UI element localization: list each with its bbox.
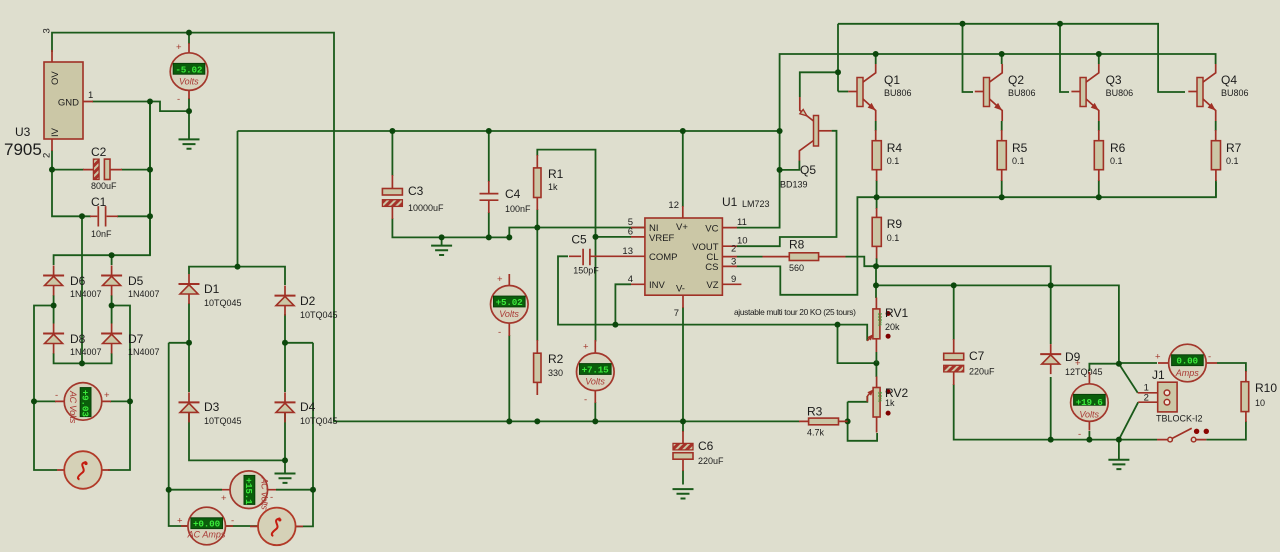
svg-text:2: 2	[42, 153, 53, 158]
ammeter AC Amps +0.00	[177, 507, 234, 545]
wire: C3/C4 bottom rail to NI corner	[392, 212, 645, 246]
svg-text:+: +	[221, 493, 227, 504]
voltmeter +7.15 Volts	[577, 340, 615, 406]
wire: bridge2 top rail	[189, 267, 285, 285]
wire: R1 top route over to VREF vertical	[537, 150, 595, 342]
svg-text:Volts: Volts	[585, 377, 605, 387]
capacitor C5 150pF	[569, 233, 610, 276]
svg-text:C4: C4	[505, 187, 521, 201]
svg-text:AC Amps: AC Amps	[187, 530, 226, 540]
svg-text:10: 10	[737, 236, 748, 247]
svg-text:100nF: 100nF	[505, 204, 531, 214]
junction	[109, 252, 115, 258]
wire: Q5 emitter node line	[800, 72, 838, 97]
svg-text:9: 9	[731, 274, 736, 285]
svg-text:D4: D4	[300, 400, 316, 414]
svg-text:-: -	[498, 327, 501, 338]
svg-text:D7: D7	[128, 332, 144, 346]
svg-text:1N4007: 1N4007	[128, 347, 160, 357]
voltmeter AC Volts +9.03 (rotated)	[55, 383, 111, 424]
svg-text:BU806: BU806	[1008, 88, 1036, 98]
svg-text:COMP: COMP	[649, 252, 678, 263]
wire: U3 pin2 down to C2 row	[52, 150, 150, 170]
svg-text:10nF: 10nF	[91, 229, 112, 239]
junction	[612, 322, 618, 328]
svg-text:+7.15: +7.15	[582, 365, 610, 376]
svg-text:6: 6	[628, 227, 633, 238]
junction	[874, 194, 880, 200]
wire: Q5 collector route to VC node	[780, 161, 800, 170]
AC source 2	[250, 508, 303, 546]
svg-text:10TQ045: 10TQ045	[300, 416, 338, 426]
junction	[79, 213, 85, 219]
capacitor C3 10000uF	[382, 175, 444, 219]
svg-text:Q3: Q3	[1106, 73, 1122, 87]
svg-text:Volts: Volts	[1079, 409, 1099, 419]
wire: V- pin7 to bottom bus	[682, 307, 684, 421]
svg-text:TBLOCK-I2: TBLOCK-I2	[1156, 414, 1203, 424]
wire: C3 top pin stub	[391, 131, 393, 176]
svg-text:-: -	[177, 94, 180, 105]
junction	[835, 69, 841, 75]
svg-text:R8: R8	[789, 238, 805, 252]
resistor R3 4.7k	[799, 405, 848, 438]
svg-text:560: 560	[789, 263, 804, 273]
junction	[1048, 282, 1054, 288]
svg-text:-: -	[55, 390, 58, 401]
transistor Q3 BU806	[1071, 64, 1098, 121]
wire: J1 pin1 diagonal	[1119, 364, 1138, 393]
wire: U3 GND pin1 to node	[92, 101, 150, 103]
junction	[1096, 194, 1102, 200]
ground	[179, 139, 200, 148]
wire: node rail to D9 column	[876, 266, 1051, 344]
junction	[960, 21, 966, 27]
junction	[186, 340, 192, 346]
svg-text:ajustable multi tour 20 KO (25: ajustable multi tour 20 KO (25 tours)	[734, 307, 856, 317]
junction	[845, 418, 851, 424]
ground	[275, 474, 296, 483]
wire: R10 bottom to switch	[1119, 421, 1246, 440]
svg-text:V-: V-	[676, 284, 685, 295]
wire: C7 bottom rail to ground	[954, 384, 1119, 460]
junction	[282, 457, 288, 463]
capacitor C1 10nF	[90, 195, 118, 239]
wire: center vertical through bridge1 to lower rail	[81, 216, 83, 363]
transistor Q5 BD139 (PNP driver)	[780, 97, 832, 190]
svg-text:-: -	[270, 492, 273, 503]
svg-text:R2: R2	[548, 352, 564, 366]
svg-text:+: +	[177, 516, 183, 527]
diode D7 1N4007	[101, 324, 122, 354]
svg-text:-: -	[584, 395, 587, 406]
wire: +7.15 meter bottom to bus	[594, 402, 596, 421]
wire: RV1 top pin green part	[875, 266, 877, 298]
potentiometer RV2 1k	[867, 377, 908, 433]
svg-text:3: 3	[731, 257, 736, 268]
junction	[186, 30, 192, 36]
resistor R6 0.1	[1094, 130, 1125, 181]
capacitor C2 800uF	[83, 145, 122, 191]
svg-text:Amps: Amps	[1175, 368, 1200, 378]
wire: R4..R7 bottoms to emitter rail	[877, 180, 1216, 197]
svg-text:+: +	[583, 342, 589, 353]
svg-text:0.1: 0.1	[887, 156, 900, 166]
wire: D9 bottom stub	[1050, 377, 1052, 440]
diode D5 1N4007	[101, 266, 122, 296]
diode D1 10TQ045	[179, 274, 200, 304]
svg-text:+19.6: +19.6	[1076, 397, 1104, 408]
svg-text:0.1: 0.1	[887, 233, 900, 243]
svg-text:3: 3	[42, 28, 53, 33]
wire: R3 right node to RV2	[848, 396, 878, 441]
svg-text:11: 11	[737, 217, 747, 228]
wire: raw DC rail C3/C4/V+ row	[238, 130, 780, 132]
junction	[439, 234, 445, 240]
svg-text:Q2: Q2	[1008, 73, 1024, 87]
svg-text:+: +	[104, 390, 110, 401]
wire: VC pin to collector rail	[737, 54, 1216, 228]
svg-text:+15.1: +15.1	[243, 478, 254, 506]
junction	[1116, 361, 1122, 367]
junction	[873, 263, 879, 269]
junction	[310, 487, 316, 493]
svg-text:0.1: 0.1	[1226, 156, 1239, 166]
junction	[147, 99, 153, 105]
svg-text:+: +	[497, 274, 503, 285]
junction	[873, 51, 879, 57]
junction	[999, 194, 1005, 200]
svg-text:-5.02: -5.02	[175, 64, 203, 75]
wire: bridge2 feed	[237, 131, 239, 267]
svg-text:BU806: BU806	[884, 88, 912, 98]
svg-text:1: 1	[88, 90, 93, 101]
junction	[680, 418, 686, 424]
junction	[873, 360, 879, 366]
junction	[592, 418, 598, 424]
svg-text:R6: R6	[1110, 141, 1126, 155]
svg-text:0.1: 0.1	[1012, 156, 1025, 166]
svg-text:+0.00: +0.00	[193, 519, 221, 530]
wire: Q collector stubs to rail	[876, 54, 1099, 64]
svg-text:RV1: RV1	[885, 306, 908, 320]
wire: RV2 top pin green part	[875, 363, 877, 377]
ammeter 0.00 Amps	[1155, 344, 1217, 382]
svg-text:10: 10	[1255, 398, 1265, 408]
junction	[49, 167, 55, 173]
svg-text:+9.03: +9.03	[79, 390, 90, 418]
junction	[680, 128, 686, 134]
junction	[1096, 51, 1102, 57]
svg-text:AC Volts: AC Volts	[68, 390, 78, 424]
svg-text:+5.02: +5.02	[496, 297, 524, 308]
junction	[1048, 437, 1054, 443]
diode D3 10TQ045	[179, 392, 200, 422]
ground	[431, 246, 452, 255]
junction	[777, 128, 783, 134]
wire: AC Volts2 right tap and right AC leg	[276, 343, 313, 527]
junction	[1116, 437, 1122, 443]
wire: AC Volts1 meter taps	[34, 400, 130, 402]
svg-text:10000uF: 10000uF	[408, 203, 444, 213]
diode D9 12TQ045	[1040, 344, 1061, 374]
ground	[673, 489, 694, 498]
junction	[79, 360, 85, 366]
svg-text:0.1: 0.1	[1110, 156, 1123, 166]
wire: x150 vertical GND node down to bridge1 top rail	[54, 102, 150, 266]
svg-text:220uF: 220uF	[698, 456, 724, 466]
junction	[109, 303, 115, 309]
svg-text:R1: R1	[548, 167, 564, 181]
junction	[389, 128, 395, 134]
svg-text:800uF: 800uF	[91, 181, 117, 191]
capacitor C4 100nF	[480, 181, 532, 214]
wire: C7 top stub	[953, 285, 955, 340]
wire: Q2 base feed	[963, 24, 974, 92]
resistor R1 1k	[534, 155, 564, 210]
regulator U1 LM723	[610, 195, 770, 319]
junction	[506, 418, 512, 424]
svg-text:OV: OV	[50, 71, 61, 85]
potentiometer RV1 20k	[867, 298, 908, 364]
junction	[147, 213, 153, 219]
svg-text:+: +	[1075, 358, 1081, 369]
wire: CS staircase to current sense vertical	[737, 182, 1216, 295]
wire: node step to -5.02 meter minus and ground	[150, 98, 189, 139]
wire: R8 right step down to R9/RV1 node	[846, 257, 877, 267]
svg-text:D6: D6	[70, 274, 86, 288]
transistor Q1 BU806	[848, 64, 875, 121]
wire: D5-D7 mid node and right rail	[108, 295, 130, 470]
svg-text:R9: R9	[887, 217, 903, 231]
junction	[166, 487, 172, 493]
svg-text:R3: R3	[807, 405, 823, 419]
svg-text:C2: C2	[91, 145, 107, 159]
junction	[1086, 437, 1092, 443]
ground	[1108, 460, 1129, 469]
resistor R10 10	[1241, 371, 1277, 422]
wire: V+ pin12 vertical	[682, 131, 684, 207]
svg-text:C1: C1	[91, 195, 107, 209]
wire: J1 pin2 diagonal	[1119, 402, 1138, 439]
svg-text:R10: R10	[1255, 381, 1277, 395]
junction	[235, 264, 241, 270]
svg-text:D2: D2	[300, 294, 316, 308]
wire: AC Amps to source2	[224, 525, 259, 527]
svg-text:VC: VC	[705, 224, 718, 235]
svg-text:V+: V+	[676, 222, 688, 233]
wire: ammeter right to R10	[1217, 363, 1246, 372]
wire: Q3 base feed	[1060, 24, 1069, 92]
wire: -5.02 voltmeter top to rail	[188, 33, 190, 44]
svg-text:Volts: Volts	[179, 77, 199, 87]
wire: C5 left to INV rail	[558, 256, 867, 341]
diode D6 1N4007	[43, 266, 64, 296]
svg-text:4: 4	[628, 274, 633, 285]
junction	[147, 167, 153, 173]
resistor R5 0.1	[997, 130, 1027, 181]
svg-text:10TQ045: 10TQ045	[204, 298, 242, 308]
junction	[593, 234, 599, 240]
voltmeter +19.6 Volts	[1071, 358, 1109, 440]
wire: AC Volts2 left tap	[169, 489, 222, 491]
svg-text:U3: U3	[15, 125, 31, 139]
voltmeter -5.02 Volts	[170, 42, 208, 105]
svg-text:1N4007: 1N4007	[70, 289, 102, 299]
svg-text:INV: INV	[649, 280, 666, 291]
wire: left AC leg down to AC Amps row	[169, 343, 189, 526]
junction	[835, 322, 841, 328]
junction	[506, 234, 512, 240]
voltmeter +5.02 Volts	[491, 274, 529, 338]
wire: VOUT staircase up to Q5 base	[737, 131, 837, 246]
svg-text:D1: D1	[204, 282, 220, 296]
svg-text:C6: C6	[698, 439, 714, 453]
svg-text:C5: C5	[571, 233, 587, 247]
svg-text:-: -	[1078, 429, 1081, 440]
resistor R8 560	[763, 238, 846, 274]
wire: R1 bottom / R2 top vertical on NI node	[536, 209, 538, 341]
junction	[534, 418, 540, 424]
junction	[486, 234, 492, 240]
svg-text:2: 2	[1144, 393, 1149, 404]
AC source 1	[57, 451, 110, 489]
svg-text:J1: J1	[1152, 368, 1165, 382]
wire: upper base rail	[838, 24, 1185, 92]
svg-text:C3: C3	[408, 184, 424, 198]
junction	[999, 51, 1005, 57]
junction	[1057, 21, 1063, 27]
wire: Q1 base	[838, 91, 848, 93]
wire: R9 top to emitter rail / R9 bottom to node	[876, 197, 878, 266]
svg-text:7905: 7905	[4, 140, 42, 159]
svg-text:10TQ045: 10TQ045	[204, 416, 242, 426]
wire: C6 top/bottom stubs	[682, 421, 684, 484]
wire: top-left rail from U3 pin3 down main left vertical to bottom bus	[52, 33, 800, 422]
junction	[186, 108, 192, 114]
svg-text:Q1: Q1	[884, 73, 900, 87]
resistor R2 330	[534, 340, 564, 395]
svg-text:R7: R7	[1226, 141, 1242, 155]
regulator U3 7905	[4, 28, 93, 159]
svg-text:BU806: BU806	[1221, 88, 1249, 98]
switch SW	[1157, 428, 1209, 442]
wire: output rail to C7/D9/J1	[876, 285, 1119, 363]
wire: +19.6 meter pins	[1089, 364, 1119, 440]
svg-text:220uF: 220uF	[969, 367, 995, 377]
svg-text:10TQ045: 10TQ045	[300, 310, 338, 320]
wire: D2 anode to mid node, tap right	[285, 314, 313, 392]
junction	[51, 303, 57, 309]
svg-text:Q5: Q5	[800, 163, 816, 177]
svg-text:100%: 100%	[876, 313, 882, 327]
svg-text:0.00: 0.00	[1176, 356, 1198, 367]
svg-text:GND: GND	[58, 98, 79, 109]
wire: INV rail drop to RV1 bottom node	[838, 325, 877, 364]
svg-text:+: +	[176, 42, 182, 53]
svg-text:12TQ045: 12TQ045	[1065, 367, 1103, 377]
svg-text:AC Volts: AC Volts	[260, 477, 270, 511]
wire: INV pin route	[615, 284, 631, 324]
connector J1 TBLOCK-I2	[1138, 368, 1203, 424]
voltmeter AC Volts +15.1 (rotated)	[221, 471, 276, 510]
wire: C1 row	[52, 170, 150, 217]
svg-text:13: 13	[622, 246, 633, 257]
resistor R9 0.1	[872, 208, 902, 259]
svg-text:BD139: BD139	[780, 180, 808, 190]
transistor Q4 BU806	[1188, 64, 1215, 121]
junction	[282, 340, 288, 346]
svg-text:+: +	[1155, 352, 1161, 363]
svg-text:VZ: VZ	[706, 280, 718, 291]
svg-text:12: 12	[668, 200, 679, 211]
junction	[486, 128, 492, 134]
wire: +5.02 meter bottom to bus	[508, 335, 510, 421]
svg-text:20k: 20k	[885, 322, 900, 332]
transistor Q2 BU806	[975, 64, 1002, 121]
svg-text:7: 7	[674, 308, 679, 319]
resistor R4 0.1	[872, 130, 902, 181]
wire: bridge1 bottom rail	[54, 353, 112, 363]
wire: Q emitter to R tops	[876, 121, 1216, 131]
capacitor C6 220uF	[673, 431, 724, 471]
wire: D6-D8 mid node and left rail down to AC volts meter and source	[34, 295, 57, 470]
wire: ammeter left pin	[1119, 362, 1157, 364]
svg-text:Q4: Q4	[1221, 73, 1237, 87]
wire: C4 top pin stub	[488, 131, 490, 182]
diode D2 10TQ045	[275, 286, 296, 316]
diode D4 10TQ045	[275, 392, 296, 422]
junction	[951, 282, 957, 288]
svg-text:D3: D3	[204, 400, 220, 414]
junction	[777, 167, 783, 173]
svg-text:IV: IV	[50, 127, 61, 137]
svg-text:1k: 1k	[548, 182, 558, 192]
svg-text:R4: R4	[887, 141, 903, 155]
capacitor C7 220uF	[944, 339, 995, 385]
junction	[873, 282, 879, 288]
junction	[534, 225, 540, 231]
svg-text:LM723: LM723	[742, 199, 770, 209]
resistor R7 0.1	[1211, 130, 1241, 181]
svg-text:1k: 1k	[885, 398, 895, 408]
svg-text:1N4007: 1N4007	[70, 347, 102, 357]
svg-text:R5: R5	[1012, 141, 1028, 155]
wire: VREF pin line	[596, 236, 632, 238]
wire: x150 vertical through C2/C1 rows	[149, 102, 151, 256]
svg-text:4.7k: 4.7k	[807, 428, 825, 438]
svg-text:-: -	[1208, 352, 1211, 363]
svg-text:C7: C7	[969, 349, 985, 363]
svg-text:-: -	[231, 516, 234, 527]
wire: D1 anode to mid node, tap left	[169, 303, 189, 392]
svg-text:U1: U1	[722, 195, 738, 209]
wire: bridge2 bottom rail with ground	[189, 411, 285, 474]
junction	[127, 398, 133, 404]
svg-text:2: 2	[731, 244, 736, 255]
svg-text:Volts: Volts	[499, 309, 519, 319]
svg-text:D5: D5	[128, 274, 144, 288]
junction	[31, 398, 37, 404]
diode D8 1N4007	[43, 324, 64, 354]
svg-text:330: 330	[548, 368, 563, 378]
svg-text:50%: 50%	[876, 392, 882, 403]
svg-text:150pF: 150pF	[573, 266, 599, 276]
svg-text:CS: CS	[705, 262, 718, 273]
svg-text:D8: D8	[70, 332, 86, 346]
svg-text:1N4007: 1N4007	[128, 289, 160, 299]
svg-text:VREF: VREF	[649, 233, 675, 244]
